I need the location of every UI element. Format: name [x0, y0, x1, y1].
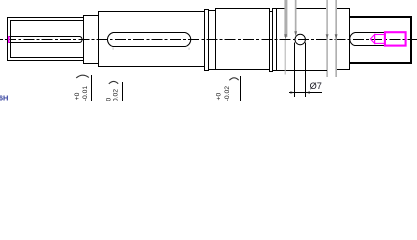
section D chamfer top segment — [208, 10, 216, 11]
centerline axis — [0, 39, 417, 41]
dia7 right arrowhead — [305, 91, 309, 93]
highlighted keyseat end edge magenta — [8, 36, 10, 43]
shaft section A bottom thread line — [10, 57, 84, 58]
keyway slot A top edge — [9, 36, 80, 37]
gray dimension line band 2 — [295, 0, 297, 32]
gray dimension arrow 4 — [335, 34, 338, 39]
svg-text:-0.01: -0.01 — [82, 86, 89, 101]
slot C left arc lower stub — [112, 48, 114, 50]
highlighted tapped hole thread box magenta — [385, 32, 406, 45]
dimension 3 parenthesis arc — [229, 78, 238, 81]
end keyway slot bottom edge — [355, 45, 385, 46]
end section H left edge — [349, 16, 350, 64]
shaft section A end face — [7, 17, 8, 61]
shaft section G right step edge — [349, 8, 350, 69]
shaft section A bottom outer edge — [7, 60, 84, 61]
gray dimension line band 1 — [284, 0, 287, 37]
dimension 2 parenthesis arc — [109, 81, 118, 83]
dia7 dimension line — [289, 92, 322, 93]
shaft section D bottom edge — [208, 69, 269, 70]
slot C right arc lower stub — [188, 48, 190, 50]
highlighted tapped hole minor bore magenta — [375, 35, 385, 44]
svg-text:-0.02: -0.02 — [112, 89, 119, 101]
shaft section A top outer edge — [7, 17, 84, 18]
end keyway slot top edge — [355, 32, 385, 33]
collar B bottom edge — [83, 63, 99, 64]
notch groove right edge — [272, 8, 273, 72]
shaft section G top edge — [337, 8, 350, 9]
dimension 2 vertical line — [122, 82, 123, 101]
svg-text:6H: 6H — [0, 94, 8, 101]
raised ring left edge — [204, 9, 205, 71]
end section H thick right face edge — [410, 16, 412, 64]
collar B left edge — [83, 15, 84, 64]
highlighted tapped hole drill cone magenta — [370, 35, 374, 44]
notch groove left edge — [269, 8, 270, 72]
keyway slot A right end arc — [80, 37, 82, 43]
gray dimension arrow 1 — [284, 34, 287, 39]
raised ring top edge — [204, 9, 209, 10]
svg-text:Ø7: Ø7 — [310, 81, 322, 91]
end section H thick top edge — [349, 16, 412, 18]
shaft section A chamfer edge — [10, 20, 11, 58]
svg-text:+0: +0 — [215, 93, 222, 101]
svg-text:+0: +0 — [105, 98, 112, 101]
cross hole circle — [295, 34, 305, 44]
dia7 right extension line — [305, 43, 306, 98]
keyway slot C bottom edge — [113, 46, 185, 47]
gray dimension line 3 — [326, 0, 327, 77]
dimension 1 vertical line — [91, 75, 92, 101]
gray dimension arrow 3 — [326, 34, 329, 39]
shaft section E top edge right part — [296, 8, 326, 9]
svg-text:-0.02: -0.02 — [224, 86, 231, 101]
shaft section E bottom edge — [272, 70, 327, 71]
shaft section C top edge — [98, 11, 205, 12]
shaft section C bottom edge — [98, 66, 205, 67]
dia7 left arrowhead — [290, 91, 294, 93]
dimension 1 parenthesis arc — [76, 75, 89, 78]
dimension 3 vertical line — [240, 76, 241, 101]
shaft section A top thread line — [10, 20, 84, 21]
collar B top edge — [83, 15, 99, 16]
gray extension line 1 lower part — [285, 40, 286, 75]
end section H thick bottom edge — [349, 62, 412, 64]
keyway slot C right end arc — [185, 33, 191, 47]
dia7 left extension line — [294, 43, 295, 98]
keyway slot C left end arc — [107, 33, 113, 47]
section E chamfer edge — [276, 8, 277, 71]
shaft section G bottom edge — [337, 69, 350, 70]
notch groove top bottom line — [269, 11, 273, 12]
svg-text:+0: +0 — [74, 92, 81, 100]
shaft section E top edge left part — [272, 8, 285, 9]
gray dimension arrow 2 — [294, 31, 297, 36]
gray dimension line 4 — [335, 0, 337, 77]
shaft section D top edge — [215, 8, 269, 9]
notch groove lower bottom line — [269, 71, 273, 72]
keyway slot A bottom edge — [9, 42, 80, 43]
end keyway slot left arc — [350, 33, 355, 46]
raised ring bottom edge — [204, 70, 209, 71]
collar B right step edge — [98, 11, 99, 67]
section D chamfer edge — [215, 8, 216, 70]
raised ring right edge — [208, 9, 209, 71]
keyway slot C top edge — [113, 32, 185, 33]
